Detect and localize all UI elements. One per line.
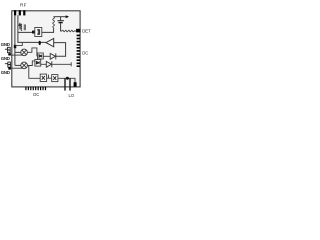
mixer M2 bbox=[21, 62, 28, 69]
pin GND d bbox=[8, 62, 11, 65]
gnd tick lower bbox=[5, 63, 8, 65]
wire pin to mixer M2 lower port bbox=[11, 67, 22, 69]
wire LO pin 1 bbox=[64, 78, 66, 90]
wire X1 to mixers LO bbox=[29, 66, 40, 79]
filter box F2 bbox=[38, 53, 44, 59]
filter box F2 glyph bbox=[39, 54, 42, 57]
diode D2 bbox=[46, 61, 52, 67]
chip outline bbox=[12, 11, 80, 87]
resistor R1 vertical squiggle bbox=[53, 17, 55, 28]
wire balun to filter box bbox=[18, 31, 35, 33]
gnd tick upper bbox=[5, 48, 8, 50]
svg-text:DET: DET bbox=[82, 28, 91, 33]
capacitor C1 bottom plate bbox=[59, 22, 63, 23]
filter box F1 glyph bbox=[37, 30, 40, 35]
multiplier X2 cross bbox=[53, 76, 56, 80]
pin GND e bbox=[8, 65, 11, 68]
wire LO input run bbox=[58, 78, 75, 82]
pin GND a bbox=[8, 47, 11, 50]
svg-text:GND: GND bbox=[1, 56, 10, 61]
LO junction dot bbox=[66, 77, 69, 80]
balun arrow bbox=[19, 24, 21, 30]
pin GND b bbox=[8, 50, 11, 53]
wire pin to mixer M1 lower port bbox=[11, 54, 22, 56]
filter box F1 bbox=[35, 28, 42, 37]
wire RF+ vertical bbox=[14, 15, 16, 65]
IF pin ladder right bbox=[77, 35, 80, 67]
wire R2 to DET pin bbox=[74, 30, 78, 32]
wire F2 to diode D1 bbox=[43, 55, 50, 57]
wire RF to M2 bbox=[15, 64, 21, 66]
capacitor C1 top plate bbox=[57, 20, 64, 22]
wire F3 to diode D2 bbox=[41, 63, 47, 65]
pin GND f bbox=[8, 67, 11, 69]
wire amp base to corner bbox=[54, 43, 66, 57]
pin RF 3 bbox=[23, 10, 25, 15]
filter box F3 bbox=[35, 60, 41, 67]
filter box F3 glyph bbox=[36, 61, 39, 64]
bottom pin row DC bbox=[26, 87, 46, 91]
wire LO pin 2 bbox=[69, 78, 71, 90]
svg-text:GND: GND bbox=[1, 70, 10, 75]
balun coil bbox=[21, 24, 22, 30]
wire M2 to filter F3 bbox=[27, 61, 35, 66]
junction dot on amp line bbox=[39, 41, 41, 45]
pin RF 1 bbox=[14, 10, 16, 15]
wire RF to M1 bbox=[15, 51, 21, 53]
diode D1 bbox=[50, 53, 56, 59]
wire M1 to filter F2 bbox=[27, 48, 37, 56]
wire D2 to IF pins bbox=[52, 62, 71, 66]
wire RF- vertical bbox=[18, 15, 46, 42]
wire cap to resistor R2 bbox=[61, 23, 62, 31]
multiplier box X1 bbox=[40, 74, 46, 81]
svg-text:RF: RF bbox=[20, 2, 27, 7]
multiplier X1 cross bbox=[42, 76, 45, 80]
wire arrow node down bbox=[60, 17, 62, 21]
resistor R2 horizontal squiggle bbox=[62, 30, 74, 32]
junction square on top line bbox=[32, 31, 35, 34]
svg-text:LO: LO bbox=[69, 93, 75, 98]
wire filter to bias node bbox=[42, 28, 54, 33]
op-amp A1 (points left) bbox=[46, 38, 54, 46]
bypass cap square on RF wire bbox=[14, 45, 16, 48]
pin DC bottom right bbox=[74, 82, 77, 86]
wire bypass to amp line bbox=[15, 43, 22, 46]
pin DET bbox=[76, 29, 80, 33]
current arrow bbox=[54, 16, 67, 18]
pin RF 2 bbox=[19, 10, 21, 15]
wire X1 to X2 with stub bbox=[47, 75, 52, 79]
svg-text:DC: DC bbox=[33, 92, 39, 97]
mixer M1 bbox=[21, 49, 28, 56]
svg-text:DC: DC bbox=[82, 51, 88, 56]
svg-text:GND: GND bbox=[1, 42, 10, 47]
balun core bars bbox=[24, 24, 25, 30]
pin GND c bbox=[8, 53, 11, 55]
multiplier box X2 bbox=[52, 75, 58, 82]
